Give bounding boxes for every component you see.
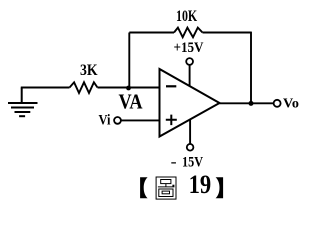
svg-text:+15V: +15V — [174, 40, 204, 56]
wire feedback top right segment — [203, 32, 252, 34]
wire feedback right vertical down to output node — [250, 32, 252, 104]
+15V supply — [174, 40, 204, 86]
op-amp U1 — [160, 69, 220, 137]
svg-text:Vi: Vi — [99, 112, 111, 128]
svg-text:10K: 10K — [176, 8, 198, 25]
caption character 圖 — [156, 177, 176, 199]
terminal Vi — [99, 112, 160, 128]
caption text 19 — [189, 170, 212, 199]
wire VA junction up to feedback — [128, 33, 130, 89]
node output junction — [249, 101, 254, 106]
-15V supply — [171, 120, 204, 171]
svg-text:3K: 3K — [80, 62, 98, 79]
svg-text:-: - — [171, 154, 177, 170]
wire R1 to inverting input — [98, 87, 160, 89]
resistor R1 3K — [70, 62, 98, 93]
ground — [8, 88, 38, 117]
wire feedback top left segment — [129, 32, 174, 34]
svg-text:19: 19 — [189, 170, 212, 199]
node VA — [119, 86, 144, 114]
terminal Vo — [274, 97, 299, 112]
caption bracket right — [216, 177, 224, 198]
svg-text:15V: 15V — [182, 154, 203, 170]
wire ground to R1 — [21, 87, 70, 89]
caption bracket left — [140, 177, 148, 198]
svg-text:VA: VA — [119, 89, 144, 113]
resistor R2 10K — [174, 8, 203, 37]
wire op-amp output — [220, 102, 274, 104]
svg-text:Vo: Vo — [283, 97, 299, 112]
